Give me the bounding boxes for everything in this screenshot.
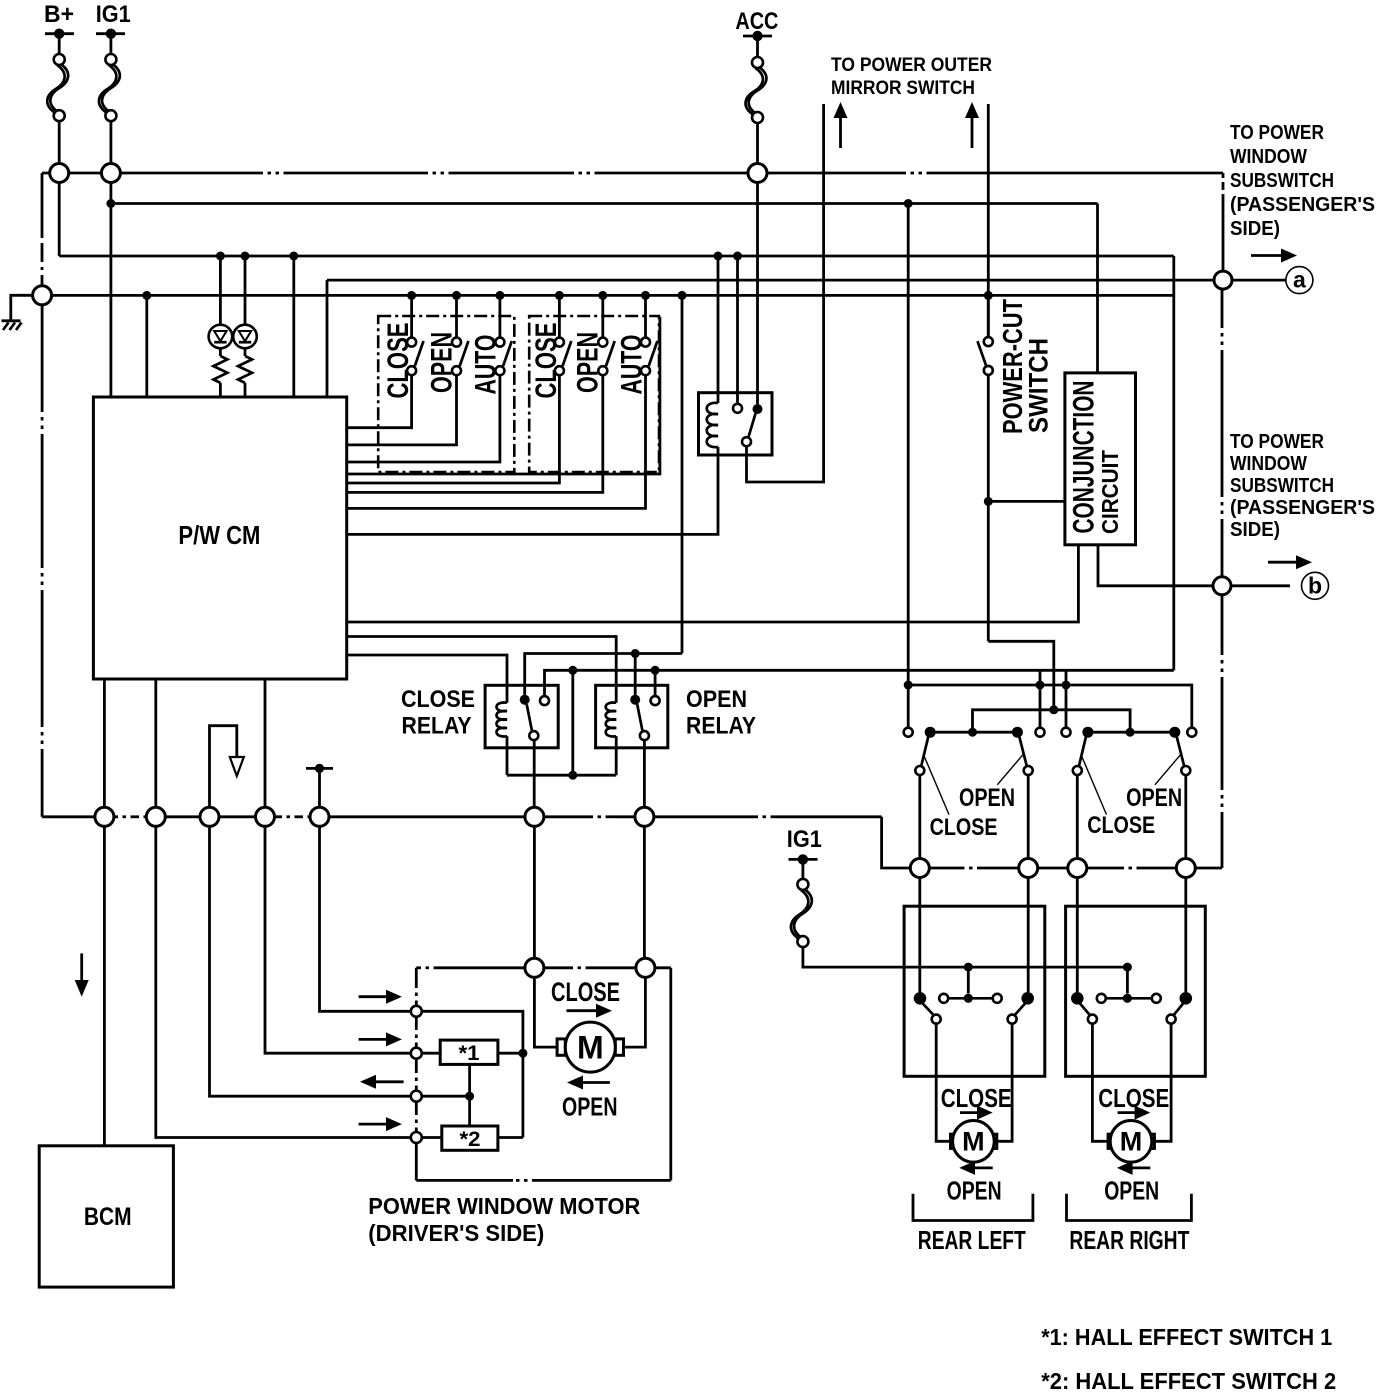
- wire rear-right motor right: [1155, 1024, 1171, 1141]
- wire motor feed 4 (x=155.8): [156, 826, 412, 1137]
- connector node b: [1213, 577, 1231, 595]
- close relay contacts: [520, 695, 549, 808]
- svg-text:CLOSE: CLOSE: [930, 814, 998, 841]
- close relay K2 box: [485, 685, 558, 748]
- wire power-cut jog to rear feed: [988, 641, 1054, 710]
- node a circled letter: [1286, 267, 1313, 294]
- wire top bus y=173: [59, 172, 1223, 175]
- wire conjunction pin A line: [347, 545, 1079, 622]
- wire B+ bus y=256: [59, 255, 1174, 258]
- switch AUTO (bank1): [347, 291, 512, 462]
- wire P/W CM pin2 down: [154, 679, 157, 807]
- resistor R1: [213, 348, 227, 397]
- svg-text:b: b: [1308, 573, 1322, 599]
- wire rear-right blade right down: [1184, 775, 1187, 857]
- svg-text:REAR LEFT: REAR LEFT: [918, 1225, 1026, 1255]
- wire motor right loop: [624, 977, 646, 1047]
- connector node rear rail 3: [1068, 859, 1087, 878]
- rear-left subswitch contact row: [914, 992, 1034, 1005]
- wire B+ connector to node: [58, 121, 61, 164]
- wire ground rail y=816.8: [42, 815, 882, 818]
- wire hall1 output: [498, 1052, 523, 1055]
- svg-text:CLOSE: CLOSE: [1087, 812, 1155, 839]
- junction dot hall1 output: [518, 1049, 527, 1058]
- wire relay contact feed line y=653.5: [525, 654, 682, 695]
- wire IG1 connector to node: [110, 121, 113, 164]
- svg-text:AUTO: AUTO: [470, 335, 503, 395]
- connector node ground bus: [33, 286, 52, 305]
- rear-left subswitch center feed: [967, 967, 970, 993]
- junction dot relay contact column: [733, 252, 742, 261]
- svg-text:P/W CM: P/W CM: [178, 522, 260, 550]
- tap terminal symbol: [306, 764, 333, 807]
- leader line CLOSE (rear-right): [1081, 755, 1107, 815]
- motor M3 (rear right): [1108, 1121, 1154, 1163]
- svg-text:*2: *2: [460, 1127, 481, 1151]
- terminal IG1 rear: [789, 854, 818, 864]
- svg-text:*1: *1: [459, 1041, 480, 1065]
- main relay contact common (from ACC): [742, 404, 763, 446]
- wire B+ terminal to connector: [58, 34, 61, 54]
- svg-text:REAR RIGHT: REAR RIGHT: [1069, 1225, 1189, 1255]
- LED D2: [233, 256, 257, 348]
- wire B+ node down to bus: [58, 183, 61, 257]
- arrow left feed3: [360, 1075, 404, 1089]
- rear-left control blades: [915, 737, 1032, 775]
- wire motor left loop: [534, 977, 557, 1047]
- connector node rear rail 2: [1019, 859, 1038, 878]
- connector node IG1: [101, 164, 120, 183]
- switch bank 2 enclosure: [529, 316, 659, 472]
- svg-text:CIRCUIT: CIRCUIT: [1097, 450, 1123, 534]
- arrow to node a: [1251, 249, 1297, 263]
- wire open relay NC drop: [654, 670, 657, 696]
- wire rear cross feed y=709.8: [973, 710, 1131, 732]
- wire relay coil return bus y=775.2: [507, 774, 616, 777]
- arrow close (rear right): [1118, 1106, 1151, 1120]
- connector coil B+: [47, 54, 68, 121]
- open relay K3 box: [596, 685, 668, 748]
- junction dot column x=294: [289, 252, 298, 261]
- connector node rail open-relay column: [635, 807, 654, 826]
- connector node rail 1: [95, 807, 114, 826]
- motor connector circle 4: [411, 1132, 422, 1143]
- wire ground node down to rail: [41, 305, 44, 817]
- wire close-relay column rail1 to motor rail: [533, 826, 536, 958]
- wire BCM feed: [103, 826, 106, 1146]
- connector node a: [1214, 271, 1232, 289]
- connector node ACC: [748, 164, 767, 183]
- junction dot x=147: [142, 291, 151, 300]
- rear-right subswitch center feed: [1126, 967, 1129, 993]
- arrow right feed4: [359, 1117, 402, 1131]
- svg-text:IG1: IG1: [96, 1, 131, 28]
- rear-left control contacts: [904, 727, 1045, 738]
- arrow open direction (driver): [567, 1076, 610, 1090]
- junction dot rear-left motor feed: [964, 963, 973, 972]
- junction dot open relay NC column: [651, 666, 660, 675]
- wire motor feed 3 (x=209.5): [210, 826, 412, 1096]
- power-cut switch S1: [978, 291, 993, 641]
- connector node rail 5: [310, 807, 329, 826]
- wire x=682 down to relay contact line: [681, 295, 684, 653]
- wire mirror switch left (from main relay): [747, 104, 824, 482]
- switch CLOSE (bank2): [347, 291, 572, 483]
- wire rail step down: [882, 817, 961, 868]
- main relay coil: [707, 256, 718, 455]
- junction dot rear-right motor feed: [1123, 963, 1132, 972]
- motor connector circle 3: [411, 1091, 422, 1102]
- junction dot bus x=682: [678, 291, 687, 300]
- power window motor enclosure (driver): [416, 968, 671, 1181]
- wire motor pin3 internal: [422, 1095, 470, 1098]
- svg-text:OPEN: OPEN: [959, 784, 1015, 812]
- svg-text:CLOSE: CLOSE: [551, 977, 620, 1007]
- motor M2 (rear left): [951, 1121, 997, 1163]
- wire power-cut to conjunction box: [988, 500, 1065, 503]
- hall effect switch 2 box: [442, 1126, 498, 1150]
- wire rear-left blade left down: [918, 775, 921, 857]
- wire open relay contact drop: [634, 654, 637, 695]
- arrow right feed1: [359, 990, 402, 1004]
- wire conjunction top pin: [1096, 204, 1099, 373]
- svg-text:SWITCH: SWITCH: [1024, 338, 1054, 433]
- wire to ground: [11, 295, 33, 321]
- svg-text:CLOSERELAY: CLOSERELAY: [401, 686, 475, 740]
- switch CLOSE (bank1): [347, 291, 424, 428]
- wire node b down to rear rail: [1221, 595, 1224, 868]
- wire bank2 right return: [347, 317, 660, 474]
- junction dot relay coil column: [714, 252, 723, 261]
- arrow close (rear left): [960, 1106, 993, 1120]
- wire rear-left contact feeds: [920, 878, 1028, 993]
- terminal B+: [45, 29, 74, 39]
- junction dot IG1 bus: [106, 199, 115, 208]
- close relay coil: [497, 702, 508, 775]
- wire node a to node b dash-dot vertical: [1221, 289, 1224, 577]
- junction dot hall link: [465, 1092, 474, 1101]
- wire rear-right motor left: [1092, 1024, 1108, 1141]
- LED D1: [209, 256, 233, 348]
- rear-left subswitch blades: [923, 1004, 1025, 1024]
- junction dot rear bus left: [904, 681, 913, 690]
- connector node motor rail right: [636, 958, 655, 977]
- svg-text:OPEN: OPEN: [562, 1092, 618, 1122]
- switch AUTO (bank2): [347, 291, 658, 509]
- wire conjunction pin B to node b: [1098, 545, 1290, 586]
- wire NC contact line y=670.3: [545, 670, 1174, 696]
- arrow up mirror switch left: [834, 102, 848, 148]
- connector node rail 2: [146, 807, 165, 826]
- svg-text:a: a: [1293, 267, 1306, 293]
- connector coil ACC: [746, 57, 767, 123]
- connector node rail close-relay column: [525, 807, 544, 826]
- svg-text:CLOSE: CLOSE: [1098, 1083, 1169, 1113]
- svg-text:*1: HALL EFFECT SWITCH 1: *1: HALL EFFECT SWITCH 1: [1041, 1324, 1332, 1350]
- switch OPEN (bank2): [347, 291, 615, 493]
- wire rear-right contact feeds: [1077, 878, 1186, 993]
- rear-right subswitch contact row: [1071, 992, 1192, 1005]
- wire node-a line y=280: [327, 280, 1290, 397]
- rear-right control contacts: [1062, 727, 1197, 738]
- arrow right feed2: [359, 1032, 402, 1046]
- svg-text:OPEN: OPEN: [425, 332, 458, 393]
- conjunction circuit box U2: [1065, 373, 1136, 545]
- leader line OPEN (rear-right): [1155, 753, 1182, 785]
- junction dot LED column 1: [216, 252, 225, 261]
- arrow up mirror switch right: [965, 102, 979, 148]
- wire B+ node left stub: [42, 172, 50, 175]
- switch bank 1 enclosure: [378, 316, 514, 472]
- svg-text:M: M: [962, 1127, 985, 1157]
- wire IG1 rear to switch feed: [803, 947, 1128, 967]
- wire hall1 to hall2: [468, 1064, 471, 1126]
- svg-text:BCM: BCM: [84, 1203, 132, 1231]
- wire motor feed 2 (x=265): [265, 826, 412, 1053]
- wire close relay coil feed: [347, 655, 507, 703]
- main relay K1 box: [699, 393, 773, 455]
- wire mirror switch right (power-cut column upper): [987, 104, 990, 337]
- wire rear-right blade left down: [1076, 775, 1079, 857]
- wire x=294 down to P/W CM: [292, 256, 295, 397]
- motor M1 (driver): [557, 1022, 623, 1072]
- arrow open (rear right): [1117, 1161, 1150, 1175]
- wire motor pin4 to hall switch 2: [422, 1136, 442, 1139]
- svg-text:OPEN: OPEN: [947, 1176, 1002, 1206]
- rear-right control blades: [1073, 737, 1191, 775]
- arrow down beside BCM feed: [75, 953, 89, 996]
- junction dot x=1066 rear bus: [1062, 681, 1071, 690]
- svg-text:*2: HALL EFFECT SWITCH 2: *2: HALL EFFECT SWITCH 2: [1041, 1368, 1336, 1394]
- wire main relay coil return to P/W CM: [347, 455, 718, 534]
- svg-text:OPEN: OPEN: [572, 332, 605, 393]
- rear-left subswitch box: [904, 906, 1045, 1076]
- junction dot open relay contact column: [631, 649, 640, 658]
- wire hall2 output: [498, 1136, 523, 1139]
- wire rear rail y=868: [961, 867, 1222, 870]
- svg-text:M: M: [577, 1030, 604, 1066]
- node b circled letter: [1302, 572, 1329, 599]
- junction dot cross feed: [1049, 705, 1058, 714]
- rear-left control contact bar: [930, 731, 1017, 734]
- leader line OPEN (rear-left): [997, 753, 1024, 785]
- connector node rail 4: [256, 807, 275, 826]
- connector coil IG1 rear: [791, 879, 812, 947]
- resistor R2: [238, 348, 252, 397]
- main relay contact NC: [733, 256, 742, 413]
- wire motor pin1 internal: [422, 1011, 523, 1137]
- wire rear-left motor right: [998, 1024, 1012, 1141]
- open relay coil: [606, 702, 617, 775]
- bracket rear right: [1067, 1194, 1192, 1221]
- svg-text:CONJUNCTION: CONJUNCTION: [1068, 381, 1101, 534]
- wire rear-left motor left: [936, 1024, 950, 1141]
- motor connector circle 2: [411, 1048, 422, 1059]
- wire drop x=1066 (NC line to rear bus): [1065, 670, 1068, 727]
- wire drop x=1040 (NC line to rear bus): [1039, 670, 1042, 727]
- junction dot x=1040 rear bus: [1036, 681, 1045, 690]
- svg-text:OPEN: OPEN: [1126, 784, 1182, 812]
- wire rear-left blade right down: [1027, 775, 1030, 857]
- svg-text:TO POWER OUTERMIRROR SWITCH: TO POWER OUTERMIRROR SWITCH: [831, 54, 992, 99]
- svg-text:CLOSE: CLOSE: [530, 323, 563, 399]
- connector node rail 3: [200, 807, 219, 826]
- arrow to node b: [1268, 555, 1312, 569]
- hall effect switch 1 box: [440, 1040, 498, 1064]
- wire IG1 rear to connector: [802, 859, 805, 879]
- svg-text:AUTO: AUTO: [616, 335, 649, 395]
- wire IG1 bus y=203.5: [111, 202, 1098, 205]
- terminal ACC: [743, 31, 772, 41]
- svg-text:CLOSE: CLOSE: [382, 323, 415, 399]
- pointer arrow symbol: [210, 726, 244, 808]
- wire rear feed x=908 (from IG1 bus): [907, 204, 910, 728]
- ground: [2, 321, 22, 330]
- wire rear bus y=685: [908, 685, 1192, 727]
- wire top bus corner down to node a: [1222, 173, 1225, 271]
- wire open relay coil feed: [347, 637, 617, 703]
- connector coil IG1: [99, 54, 120, 121]
- wire inter-relay column: [571, 670, 574, 775]
- rear-right subswitch blades: [1080, 1004, 1183, 1024]
- connector node rear rail 1: [910, 859, 929, 878]
- open relay contacts: [630, 695, 659, 808]
- svg-text:B+: B+: [44, 1, 74, 28]
- rear-right subswitch box: [1066, 906, 1206, 1076]
- arrow close direction (driver): [566, 1004, 612, 1018]
- bracket rear left: [913, 1194, 1033, 1221]
- wire left dash-dot drop to ground node: [41, 173, 44, 286]
- rear-right control contact bar: [1088, 731, 1175, 734]
- svg-text:OPENRELAY: OPENRELAY: [686, 686, 756, 740]
- svg-text:M: M: [1120, 1127, 1143, 1157]
- svg-text:IG1: IG1: [787, 826, 822, 853]
- label CONJUNCTION CIRCUIT rotated: [1068, 381, 1123, 535]
- label POWER-CUT SWITCH rotated: [997, 299, 1054, 434]
- svg-text:OPEN: OPEN: [1104, 1176, 1159, 1206]
- wire IG1 terminal to connector: [110, 34, 113, 54]
- wire bus y=295.4: [52, 294, 1174, 297]
- wire motor pin2 to hall switch 1: [422, 1052, 440, 1055]
- wire x=147 down to P/W CM: [145, 295, 148, 397]
- connector node motor rail left: [525, 958, 544, 977]
- junction dot coil return: [568, 771, 577, 780]
- junction dot power-cut to conjunction: [984, 497, 993, 506]
- switch OPEN (bank1): [347, 291, 469, 445]
- leader line CLOSE (rear-left): [924, 755, 950, 815]
- wire right drop x=1174: [1172, 256, 1175, 670]
- wire IG1 column down to P/W CM: [110, 183, 113, 398]
- connector node rear rail 4: [1176, 859, 1195, 878]
- terminal IG1: [96, 29, 125, 39]
- arrow open (rear left): [959, 1161, 992, 1175]
- wire motor feed 1 (x=319.5): [320, 826, 412, 1011]
- wire open-relay column rail1 to motor rail: [643, 826, 646, 958]
- BCM box U3: [39, 1146, 173, 1287]
- wire P/W CM pin1 down: [103, 679, 106, 807]
- connector node B+: [50, 164, 69, 183]
- wire ACC connector to node: [756, 123, 759, 164]
- junction dot IG1 bus rear feed: [904, 199, 913, 208]
- junction dot LED column 2: [241, 252, 250, 261]
- wire ACC terminal to connector: [756, 36, 759, 57]
- junction dot inter-relay column top: [568, 666, 577, 675]
- wire ACC column down to relay contact: [756, 183, 759, 405]
- motor connector circle 1: [411, 1006, 422, 1017]
- svg-text:CLOSE: CLOSE: [941, 1083, 1012, 1113]
- wire P/W CM pin3 down: [264, 679, 267, 807]
- P/W CM box U1: [93, 397, 346, 679]
